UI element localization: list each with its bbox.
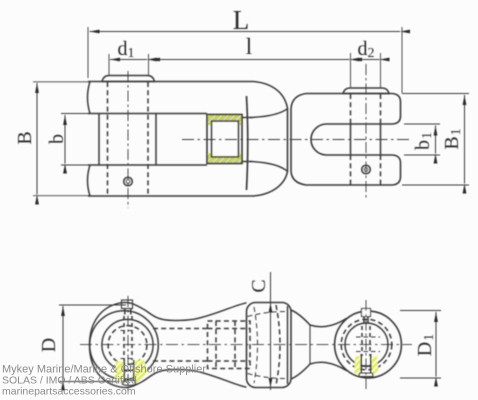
svg-text:B: B: [14, 131, 36, 144]
svg-text:C: C: [248, 279, 270, 292]
svg-text:D: D: [38, 338, 60, 352]
svg-text:marinepartsaccessories.com: marinepartsaccessories.com: [2, 386, 136, 398]
svg-text:l: l: [246, 34, 252, 59]
svg-text:L: L: [233, 5, 250, 35]
svg-text:b: b: [46, 134, 68, 144]
